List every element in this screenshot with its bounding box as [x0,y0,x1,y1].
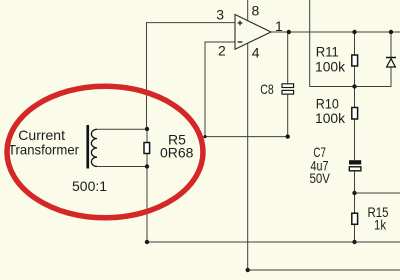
svg-text:500:1: 500:1 [72,178,107,194]
svg-text:C8: C8 [260,81,274,97]
svg-text:2: 2 [218,43,226,59]
svg-text:100k: 100k [315,59,346,75]
svg-text:50V: 50V [310,170,331,186]
svg-text:Current: Current [18,127,65,143]
svg-text:R10: R10 [316,95,339,111]
svg-text:1k: 1k [374,216,387,232]
svg-text:1: 1 [275,18,283,34]
svg-text:3: 3 [216,7,224,23]
svg-text:8: 8 [252,3,260,19]
svg-text:R11: R11 [316,44,339,60]
svg-text:4: 4 [252,44,260,60]
svg-text:100k: 100k [315,110,346,126]
svg-text:0R68: 0R68 [160,145,194,161]
svg-text:Transformer: Transformer [8,142,79,158]
